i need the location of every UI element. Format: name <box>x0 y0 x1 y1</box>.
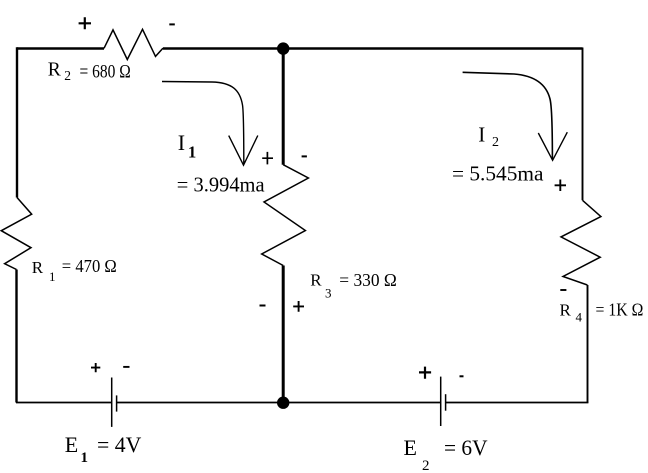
polarity plus R3 bottom-right <box>293 301 304 312</box>
svg-text:4: 4 <box>576 310 583 325</box>
polarity minus E2 <box>460 375 464 377</box>
svg-text:R: R <box>310 270 322 289</box>
wire middle upper <box>282 49 285 165</box>
wire bottom-middle run <box>117 402 441 404</box>
label E1 value <box>65 432 142 466</box>
svg-text:1: 1 <box>81 450 89 466</box>
battery E1 long plate <box>111 378 113 427</box>
svg-text:= 680 Ω: = 680 Ω <box>80 62 131 83</box>
wire left lower <box>15 270 17 403</box>
svg-text:I: I <box>178 130 185 155</box>
wire top-right run <box>163 47 583 50</box>
svg-text:I: I <box>478 122 485 146</box>
wire left upper <box>16 47 18 197</box>
polarity plus R2 left <box>79 17 91 29</box>
polarity minus R3 top-right <box>302 155 307 157</box>
polarity minus E1 <box>123 366 129 368</box>
label I2 <box>452 122 544 185</box>
wire bottom-left run <box>16 402 112 404</box>
wire top-left run <box>17 47 104 50</box>
node top junction dot <box>277 42 289 54</box>
svg-text:R: R <box>560 301 572 320</box>
resistor R3 <box>262 165 309 266</box>
label R3 value <box>310 270 397 300</box>
svg-text:R: R <box>32 258 44 277</box>
wire right upper <box>582 48 584 201</box>
polarity minus R3 bottom-left <box>260 305 266 307</box>
resistor R2 <box>104 29 163 59</box>
polarity plus R3 top-left <box>262 152 273 165</box>
resistor R4 <box>561 200 601 285</box>
wire bottom-right run <box>446 402 589 404</box>
svg-text:= 6V: = 6V <box>444 435 488 460</box>
svg-text:= 5.545ma: = 5.545ma <box>452 162 544 186</box>
svg-text:1: 1 <box>188 143 196 162</box>
polarity plus E1 <box>91 363 100 372</box>
svg-text:3: 3 <box>325 285 332 300</box>
svg-text:= 3.994ma: = 3.994ma <box>177 173 265 197</box>
svg-text:2: 2 <box>492 135 499 150</box>
svg-text:E: E <box>404 435 417 460</box>
svg-text:= 1K Ω: = 1K Ω <box>596 300 644 320</box>
svg-text:= 4V: = 4V <box>97 432 141 457</box>
wire right lower <box>587 285 589 403</box>
node bottom junction dot <box>277 397 289 409</box>
resistor R1 <box>1 198 31 270</box>
battery E1 short plate <box>116 395 118 411</box>
current arrow I1 <box>162 82 258 166</box>
current arrow I2 <box>463 72 568 160</box>
svg-text:E: E <box>65 432 78 457</box>
svg-text:2: 2 <box>422 458 430 473</box>
polarity plus E2 <box>419 367 431 379</box>
polarity minus R2 right <box>169 23 175 25</box>
battery E2 long plate <box>440 377 442 426</box>
label E2 value <box>404 435 488 473</box>
svg-text:2: 2 <box>64 68 71 83</box>
svg-text:= 470 Ω: = 470 Ω <box>62 256 117 276</box>
polarity minus R4 bottom <box>560 289 566 291</box>
battery E2 short plate <box>445 394 447 411</box>
label R4 value <box>560 300 644 325</box>
label R1 value <box>32 256 117 284</box>
wire middle lower <box>282 266 285 403</box>
label R2 value <box>48 60 131 84</box>
svg-text:1: 1 <box>49 269 56 284</box>
polarity plus R4 top <box>555 180 566 192</box>
svg-text:R: R <box>48 60 61 81</box>
svg-text:= 330 Ω: = 330 Ω <box>339 270 397 290</box>
label I1 <box>177 130 265 197</box>
